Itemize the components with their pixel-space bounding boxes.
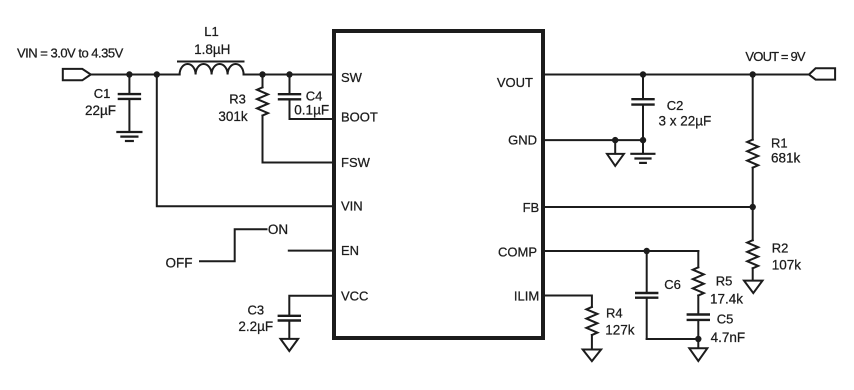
wire BOOT: [290, 118, 334, 120]
svg-text:OFF: OFF: [166, 256, 193, 271]
node C5 bottom junction: [695, 336, 701, 342]
resistor R5: [693, 251, 704, 313]
svg-text:127k: 127k: [605, 323, 635, 338]
svg-text:4.7nF: 4.7nF: [711, 330, 746, 345]
svg-text:0.1µF: 0.1µF: [294, 103, 329, 118]
svg-text:VIN = 3.0V to 4.35V: VIN = 3.0V to 4.35V: [17, 45, 124, 60]
svg-text:C2: C2: [667, 98, 684, 113]
svg-text:R5: R5: [716, 274, 733, 289]
capacitor C6: [636, 251, 657, 339]
capacitor C1: [119, 75, 140, 132]
wire C6 to C5 bottom: [647, 338, 699, 340]
svg-text:FSW: FSW: [341, 155, 371, 170]
svg-text:C6: C6: [664, 277, 681, 292]
svg-text:R4: R4: [606, 305, 623, 320]
svg-text:107k: 107k: [772, 258, 802, 273]
svg-text:C5: C5: [717, 311, 734, 326]
svg-text:BOOT: BOOT: [341, 110, 378, 125]
IC U1: [334, 31, 543, 338]
svg-text:ON: ON: [268, 222, 288, 237]
wire VOUT rail: [544, 74, 809, 76]
node C1 tap: [126, 71, 132, 77]
ground (arrow) below R4: [583, 350, 601, 362]
wire COMP: [544, 250, 698, 252]
svg-text:C4: C4: [306, 89, 323, 104]
svg-text:C1: C1: [94, 86, 111, 101]
resistor R2: [747, 207, 758, 281]
inductor L1: [178, 62, 244, 75]
ground (arrow) below C3: [281, 339, 299, 351]
svg-text:17.4k: 17.4k: [710, 292, 743, 307]
ground (arrow) below R2: [744, 281, 763, 294]
svg-text:R2: R2: [772, 240, 789, 255]
svg-text:GND: GND: [508, 133, 537, 148]
resistor R3: [257, 75, 268, 163]
ground (arrow) below C5: [689, 339, 707, 361]
svg-text:L1: L1: [204, 24, 218, 39]
node R1 tap: [750, 71, 756, 77]
svg-text:FB: FB: [523, 200, 540, 215]
svg-text:R3: R3: [229, 92, 246, 107]
svg-text:2.2µF: 2.2µF: [238, 319, 273, 334]
node R3 tap: [259, 71, 265, 77]
wire GND: [544, 139, 643, 141]
wire input rail to L1: [91, 74, 180, 76]
node GND junction at C2: [640, 137, 646, 143]
capacitor C4: [279, 75, 300, 120]
node FB junction: [750, 204, 756, 210]
svg-text:VIN: VIN: [341, 199, 363, 214]
resistor R4: [586, 307, 597, 350]
svg-text:22µF: 22µF: [85, 103, 116, 118]
svg-text:ILIM: ILIM: [514, 289, 539, 304]
ground (earth) below C1: [117, 132, 141, 141]
svg-text:301k: 301k: [218, 109, 248, 124]
wire FB: [544, 206, 753, 208]
wire EN stub: [289, 250, 333, 252]
node C2 tap: [640, 71, 646, 77]
ground (earth) below C2: [631, 154, 654, 163]
capacitor C2: [633, 75, 654, 154]
svg-text:3 x 22µF: 3 x 22µF: [658, 114, 711, 129]
node C4 tap: [286, 71, 292, 77]
switch lever OFF/ON for EN: [200, 229, 267, 261]
node C6 tap: [644, 248, 650, 254]
svg-text:R1: R1: [771, 136, 788, 151]
svg-text:SW: SW: [341, 70, 363, 85]
wire FSW: [263, 162, 334, 164]
svg-text:VCC: VCC: [341, 289, 368, 304]
capacitor C5: [688, 315, 709, 340]
svg-text:COMP: COMP: [498, 244, 537, 259]
svg-text:1.8µH: 1.8µH: [194, 42, 230, 57]
resistor R1: [747, 75, 758, 208]
node GND arrow tap: [612, 137, 618, 143]
wire VIN tap down and to VIN pin: [157, 75, 333, 207]
ground (arrow) below GND wire: [607, 140, 624, 166]
svg-text:VOUT: VOUT: [497, 75, 533, 90]
wire ILIM: [544, 296, 592, 307]
wire VCC stub: [289, 296, 333, 315]
input connector J1: [63, 69, 91, 80]
svg-text:C3: C3: [247, 303, 264, 318]
node VIN tap: [154, 71, 160, 77]
svg-text:681k: 681k: [771, 151, 801, 166]
capacitor C3: [279, 316, 300, 339]
svg-text:VOUT = 9V: VOUT = 9V: [745, 49, 806, 64]
wire L1 to SW pin: [244, 74, 333, 76]
svg-text:EN: EN: [341, 243, 359, 258]
output connector J2: [809, 68, 835, 79]
